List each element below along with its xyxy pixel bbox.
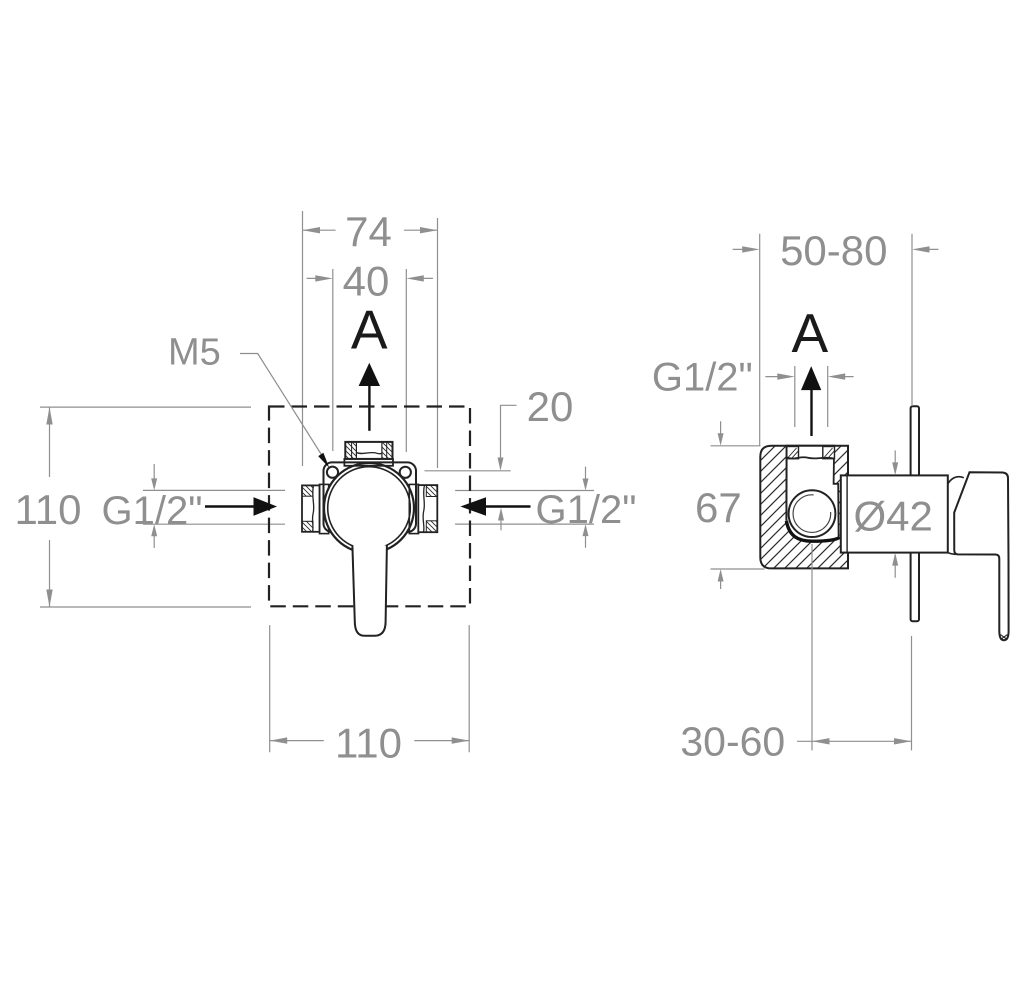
section arrow A (right) [801,366,821,390]
dimension 50-80 arrows (outside) [733,248,939,250]
cartridge ring inner [328,467,411,550]
top port with threads [345,442,392,459]
reference line y=470.8 [425,470,511,472]
recess left edge [785,447,787,521]
dimension G1/2 arrows (right view) [765,376,853,378]
wall face line over port mouth [786,445,835,447]
svg-text:110: 110 [15,486,82,533]
svg-text:20: 20 [527,383,574,430]
G1/2 flow arrow left [205,505,254,508]
section arrow A (left) [359,363,380,386]
inlet port blocks (side view, threaded) [787,447,799,459]
right port boss [409,484,418,533]
G1/2 right small lines [455,491,594,525]
dimension G1/2 verticals (right view) [795,366,828,427]
M5 leader arrowhead [318,453,329,468]
svg-text:M5: M5 [168,332,221,374]
svg-text:67: 67 [695,484,742,531]
left union nut with threads [302,485,320,531]
mounting flange with ears [324,462,417,532]
dimension 67 arrows [720,421,722,589]
top port boss [344,459,393,466]
G1/2 flow arrow right [485,505,531,508]
dimension 30-60 line+arrows [797,740,912,742]
G1/2 left small lines [143,490,285,524]
cartridge recess in wall [786,445,839,541]
screw hole left [327,467,338,478]
recess right edges [834,447,839,538]
cartridge cap arc top [948,477,964,484]
cartridge cap arc bottom [948,553,956,555]
left port boss [320,484,329,533]
svg-text:50-80: 50-80 [780,227,887,274]
M5 leader line [240,354,325,460]
cartridge dome inner arc [793,495,831,533]
dimension 30-60 extension lines [812,544,912,750]
pipe break wave (side view) [787,457,834,458]
svg-text:30-60: 30-60 [680,719,785,765]
dimension 110 (bottom) extension lines [270,625,470,752]
dimension 110 (left) line+arrows [49,407,51,607]
screw hole right [400,467,411,478]
dimension 40 arrows (outside) [307,277,433,279]
wall section (hatched) [760,446,848,569]
svg-text:74: 74 [345,208,392,255]
cartridge ring outer [324,463,414,553]
dimension 40 extension lines [333,269,407,452]
dashed installation box 110x110 [269,407,470,607]
svg-text:A: A [791,302,828,364]
cartridge dome circle [789,490,836,537]
dimension 110 (bottom) line+arrows [270,740,470,742]
lever handle (front) [352,546,387,636]
svg-text:110: 110 [335,720,402,767]
escutcheon D42 (side view) [841,475,948,552]
dimension 110 (left) extension lines [40,407,251,607]
lever handle (side view) [954,472,1008,640]
cup bottom (thick) [786,521,839,541]
handle tip break mark [1000,635,1007,640]
svg-text:Ø42: Ø42 [854,493,933,540]
G1/2 right small arrows [585,467,587,548]
svg-text:A: A [351,298,388,360]
dimension 74 line+arrows [303,229,438,231]
svg-text:G1/2": G1/2" [536,488,637,532]
trim plate (side view) [911,406,919,621]
G1/2 left small arrows [153,464,155,548]
right union nut with threads [418,485,437,532]
top port pipe break wave [356,453,382,454]
dimension 74 extension lines [303,211,438,468]
dimension 50-80 extension lines [760,234,912,446]
svg-text:G1/2": G1/2" [102,489,203,533]
dimension 20 leader [501,405,517,459]
dimension D42 arrows [894,450,896,577]
svg-text:G1/2": G1/2" [652,356,753,400]
dimension 67 extension lines [711,446,765,569]
